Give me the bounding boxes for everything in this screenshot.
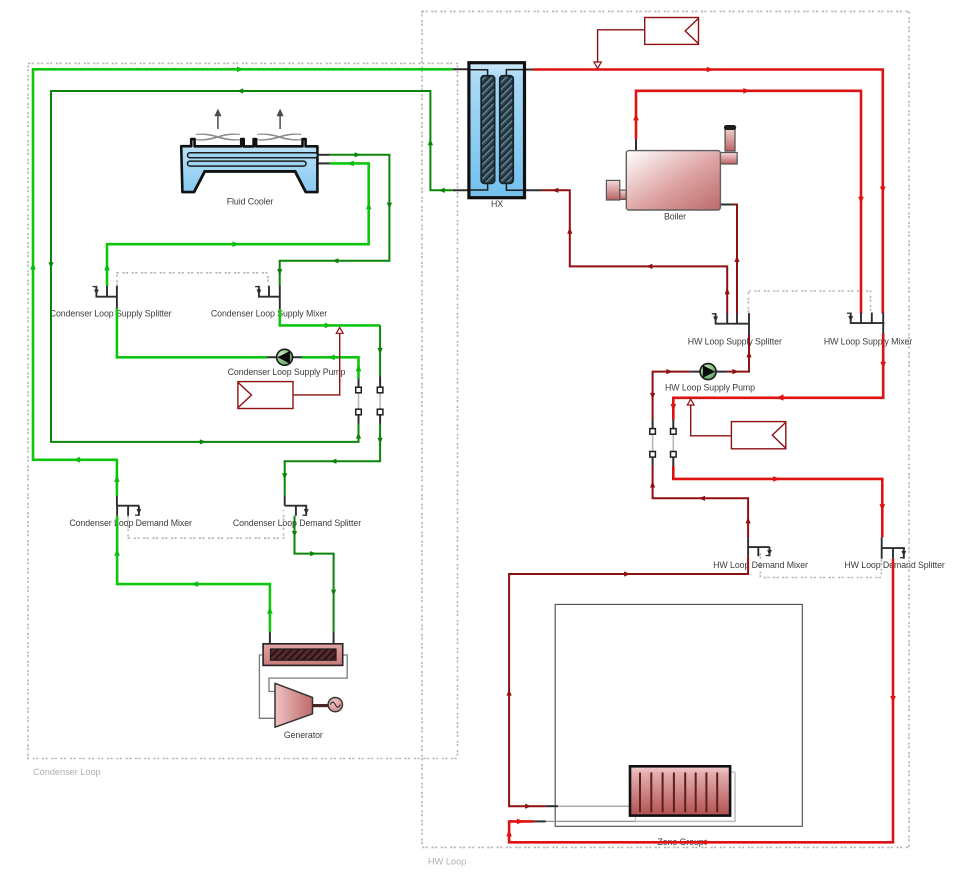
svg-text:Generator: Generator — [284, 730, 323, 740]
boiler body — [626, 151, 720, 210]
boiler left protrusion — [606, 180, 619, 200]
port stub boiler bottom-right — [720, 204, 733, 206]
port stub fluid cooler bottom inlet — [318, 162, 330, 164]
svg-text:HW Loop Demand Mixer: HW Loop Demand Mixer — [713, 560, 808, 570]
node gray segment condenser left column — [358, 393, 360, 409]
wire supply splitter outlet up-right-up to fluid cooler inlet (bright green) — [107, 163, 369, 286]
port stub generator right — [333, 632, 335, 645]
node square HW left lower — [650, 452, 656, 458]
HW demand-side inner dashed box — [760, 553, 881, 578]
node square HW right upper — [671, 429, 677, 435]
wire HW schedule to pump outlet node (dark red) — [691, 405, 732, 436]
wire condenser schedule to mixer outlet node (dark red) — [293, 333, 340, 395]
node gray segment HW left column — [652, 434, 654, 451]
condenser supply-side inner dashed box — [117, 273, 268, 286]
fluid cooler fan updraft arrow right — [279, 115, 281, 130]
port stub boiler top — [635, 139, 637, 151]
node square condenser right lower — [377, 409, 383, 415]
HX left exchanger column — [481, 76, 494, 184]
node Condenser Loop Supply Splitter comb — [96, 286, 118, 308]
wire node branch right-down to HW demand splitter (bright red) — [673, 466, 882, 537]
node stub segments HW right column — [672, 420, 674, 467]
node stub segments HW left column — [652, 420, 654, 467]
node stub segments condenser left column — [358, 378, 360, 423]
schedule box condenser pump schedule — [238, 382, 293, 409]
node gray segment HW right column — [672, 434, 674, 451]
svg-text:Condenser Loop: Condenser Loop — [33, 767, 101, 777]
port stub zone radiator outlet — [546, 805, 558, 807]
component Fluid Cooler — [181, 109, 317, 193]
wire HW supply splitter branch up-left-up-left to HX hot-side inlet (dark red) — [542, 190, 728, 313]
node gray segment condenser right column — [379, 393, 381, 409]
pump HW Loop Supply Pump — [691, 364, 727, 380]
svg-text:HW Loop Supply Mixer: HW Loop Supply Mixer — [824, 337, 913, 347]
svg-text:HW Loop Demand Splitter: HW Loop Demand Splitter — [844, 560, 944, 570]
arrows on comb stub teeth (black) — [94, 290, 906, 557]
fluid cooler fan blades left — [196, 134, 239, 140]
node square condenser left upper — [356, 387, 362, 393]
HW Loop dashed boundary box — [422, 11, 909, 847]
wire HX condenser-side outlet left-up-left-down-right to node branch (dark green) — [51, 91, 453, 442]
svg-text:HW Loop Supply Splitter: HW Loop Supply Splitter — [688, 337, 782, 347]
svg-text:Condenser Loop Supply Splitter: Condenser Loop Supply Splitter — [50, 309, 172, 319]
node HW Loop Demand Mixer comb — [748, 538, 770, 556]
wire node branch up to pump suction (dark red) — [653, 372, 691, 420]
Zone Group thin rectangle — [555, 604, 802, 826]
node Condenser Loop Supply Mixer comb — [258, 286, 280, 309]
radiator shadow — [636, 772, 736, 822]
fluid cooler coil tube upper — [188, 153, 318, 158]
port stub fluid cooler top outlet — [318, 154, 330, 156]
wire HW demand mixer stem up-left-up to node branch (dark red) — [653, 466, 749, 538]
schedule box top (HW setpoint schedule) — [645, 18, 699, 45]
schedule hollow triangle on condenser supply line — [336, 327, 343, 333]
wire boiler outlet up-right-down to HW supply mixer (bright red) — [636, 91, 861, 314]
wire pump discharge to HW supply splitter stem (dark red) — [727, 334, 749, 372]
generator hatched core — [271, 649, 337, 660]
boiler chimney — [725, 127, 735, 151]
wire node branch to pump line to supply splitter stem (bright green) — [302, 357, 359, 378]
node HW Loop Supply Mixer comb — [850, 313, 885, 334]
wire HW supply mixer stem down-left to node branch (bright red) — [673, 334, 883, 420]
svg-text:Condenser Loop Supply Mixer: Condenser Loop Supply Mixer — [211, 309, 327, 319]
svg-text:HW Loop: HW Loop — [428, 857, 466, 867]
component HX (heat exchanger) — [469, 63, 525, 198]
arrows bright red (HW loop flow) — [506, 67, 896, 845]
fluid cooler fan blades right — [258, 134, 301, 140]
node Condenser Loop Demand Mixer comb — [117, 496, 139, 516]
fluid cooler tub body — [181, 139, 317, 192]
component Zone radiator — [630, 766, 735, 821]
tails on comb stub-teeth arrows — [93, 287, 904, 558]
node square HW right lower — [671, 452, 677, 458]
setpoint hollow triangle on HW supply outlet — [594, 62, 601, 68]
component Boiler — [606, 125, 737, 210]
fluid cooler fan updraft arrow left — [214, 109, 283, 129]
pump Condenser Loop Supply Pump — [267, 349, 302, 365]
svg-text:Fluid Cooler: Fluid Cooler — [227, 197, 274, 207]
node pipe connectors: condenser branch columns — [356, 377, 676, 467]
wire HX hot-side outlet right-down to HW supply mixer (bright red) — [533, 70, 883, 314]
svg-text:Condenser Loop Supply Pump: Condenser Loop Supply Pump — [228, 367, 346, 377]
svg-text:Condenser Loop Demand Mixer: Condenser Loop Demand Mixer — [69, 518, 192, 528]
wire HW supply splitter branch up to boiler inlet (dark red) — [720, 205, 737, 314]
generator gray connector left — [259, 655, 274, 718]
node square condenser right upper — [377, 387, 383, 393]
wire zone radiator outlet left-up-right to HW demand mixer (dark red) — [509, 556, 748, 806]
svg-text:HW Loop Supply Pump: HW Loop Supply Pump — [665, 383, 755, 393]
port stub HX top-left — [453, 68, 469, 70]
boiler right protrusion — [720, 153, 737, 165]
port stub zone radiator inlet — [534, 820, 546, 822]
wire fluid cooler outlet right-down-left-down to supply mixer (dark green) — [280, 155, 390, 286]
component Generator — [259, 644, 347, 727]
wire zone connector around radiator to right side (gray) — [546, 774, 735, 822]
arrows dark red (HW loop flow) — [507, 188, 752, 809]
wire supply mixer outlet down-right (bright green) — [280, 309, 380, 325]
wire demand splitter outlet down-right-down to generator inlet (dark green) — [295, 516, 334, 632]
Condenser Loop dashed boundary box — [28, 63, 458, 758]
wire setpoint manager to supply outlet node (dark red) — [598, 30, 645, 62]
node HW Loop Supply Splitter comb — [715, 313, 750, 333]
generator engine trapezoid — [275, 683, 313, 727]
HW supply-side inner dashed box — [748, 291, 870, 314]
svg-text:Condenser Loop Demand Splitter: Condenser Loop Demand Splitter — [233, 518, 361, 528]
wire node branch down-left-down to demand splitter stem (dark green) — [285, 424, 380, 496]
wire supply mixer line down to node branch (dark green) — [379, 325, 381, 376]
port stub HX bottom-right — [525, 189, 542, 191]
wire generator outlet up-left-up to demand mixer (bright green) — [117, 516, 270, 632]
HX right exchanger column — [500, 76, 513, 184]
node stub segments condenser right column — [379, 377, 381, 424]
node Condenser Loop Demand Splitter comb — [285, 496, 307, 516]
wire HW demand splitter outlet down-left-up-right to zone radiator inlet (bright red) — [509, 559, 893, 843]
radiator fins — [640, 773, 717, 811]
schedule box HW pump schedule — [731, 422, 785, 449]
fluid cooler inner basin floor line — [194, 171, 306, 192]
svg-text:HX: HX — [491, 199, 503, 209]
generator gray connector right — [269, 655, 347, 692]
generator alternator ball — [328, 697, 342, 711]
port stub HX top-right — [525, 69, 534, 71]
wire zone connector to radiator upper port (gray) — [558, 805, 630, 807]
fluid cooler coil tube lower — [188, 161, 307, 166]
svg-text:Boiler: Boiler — [664, 212, 686, 222]
generator shaft — [313, 704, 329, 707]
port stub generator left — [269, 632, 271, 645]
node square condenser left lower — [356, 409, 362, 415]
wire pump suction side to splitter stem (bright green) — [117, 308, 267, 357]
condenser demand-side inner dashed box — [128, 510, 283, 538]
node square HW left upper — [650, 429, 656, 435]
arrows bright green (condenser loop flow) — [30, 67, 371, 614]
port stub HX bottom-left — [453, 189, 469, 191]
arrows dark green (condenser loop flow) — [48, 88, 444, 596]
generator heat recovery rect — [263, 644, 343, 666]
wire condenser demand-mixer outlet up-left-up-right to HX inlet (bright green) — [33, 69, 453, 496]
HX internal pass hooks — [471, 70, 524, 191]
schedule hollow triangle on HW supply line — [687, 399, 694, 405]
node HW Loop Demand Splitter comb — [881, 537, 905, 558]
radiator body — [630, 766, 730, 815]
